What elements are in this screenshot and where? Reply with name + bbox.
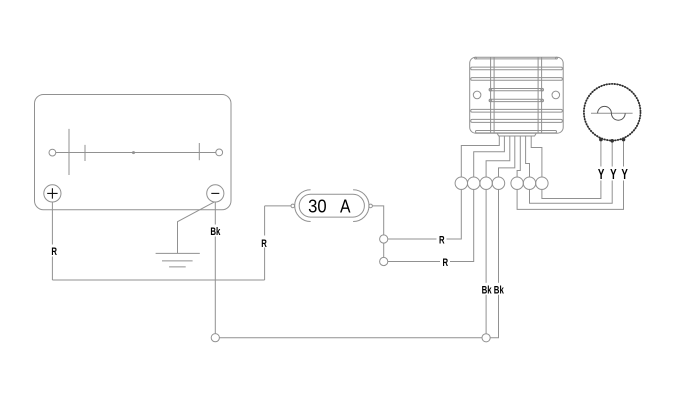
regulator pin wire 7 <box>531 136 542 177</box>
connector bullet pin4 <box>492 177 504 189</box>
connector bullet pin3 <box>480 177 492 189</box>
bottom ground bus wire <box>219 337 482 339</box>
regulator bottom mini fin <box>476 131 557 133</box>
svg-text:R: R <box>443 257 449 269</box>
battery long plate line <box>68 129 70 175</box>
regulator vertical rib left <box>491 57 495 133</box>
ground lead diagonal <box>178 202 215 254</box>
regulator pin wire 2 <box>474 136 505 177</box>
battery cell centerline <box>56 152 216 154</box>
svg-text:Bk: Bk <box>210 226 221 238</box>
svg-text:R: R <box>261 238 267 250</box>
svg-text:30: 30 <box>308 196 327 216</box>
label Y Y Y <box>595 167 629 181</box>
regulator inner fin 2 <box>489 99 543 101</box>
junction bullet left <box>211 334 219 342</box>
battery BAT1 body <box>35 95 232 210</box>
regulator pin wire 4 <box>499 136 515 177</box>
label Bk on minus wire <box>209 225 223 237</box>
connector bullet pin5 <box>511 177 523 189</box>
wire R to regulator pin 1 <box>388 189 462 239</box>
svg-text:R: R <box>439 234 445 246</box>
wire R to regulator pin 2 <box>388 189 474 261</box>
alternator terminal 3 <box>622 138 626 142</box>
regulator U1 body <box>470 57 564 133</box>
regulator fin 3 <box>471 109 563 112</box>
label R on wire 2 <box>440 256 450 268</box>
fuse F1 right outer arc <box>353 190 369 222</box>
alternator G1 stator ring <box>584 84 641 141</box>
regulator pin wire 6 <box>526 136 530 177</box>
wire fuse to connector pair <box>372 206 383 235</box>
regulator vertical rib right <box>538 57 542 133</box>
battery positive terminal <box>44 185 61 202</box>
regulator mount hole right <box>552 91 560 99</box>
alternator sine baseline <box>591 112 633 114</box>
svg-text:Y: Y <box>598 166 605 183</box>
fuse F1 left pigtail <box>291 204 295 208</box>
svg-text:Y: Y <box>621 166 628 183</box>
connector bullet CN1 <box>380 235 388 243</box>
regulator fin 1 <box>471 67 563 70</box>
connector bullet row: pin1 <box>455 177 467 189</box>
label R on wire 1 <box>437 233 447 245</box>
regulator inner fin 1 <box>489 89 543 91</box>
connector bullet pin2 <box>468 177 480 189</box>
fuse F1 right pigtail <box>369 204 373 208</box>
regulator pin wire 3 <box>486 136 510 177</box>
wire fuse riser up <box>264 206 266 280</box>
regulator connector housing <box>497 133 536 136</box>
battery short plate line right <box>198 143 200 160</box>
wire bottom run to fuse riser <box>52 279 264 281</box>
connector bullet CN2 <box>380 257 388 265</box>
label R on fuse riser <box>260 236 270 248</box>
fuse F1 left outer arc <box>295 190 311 222</box>
battery center dot <box>133 152 135 154</box>
wire Bk battery minus down <box>214 202 216 334</box>
svg-text:R: R <box>51 246 57 258</box>
wire Bk from regulator circle 4 down <box>490 189 498 337</box>
wire into fuse left <box>265 205 291 207</box>
svg-text:Bk: Bk <box>482 284 493 296</box>
wire battery plus down <box>51 202 53 280</box>
regulator pin wire 5 <box>517 136 520 177</box>
wire Bk from regulator circle 3 down <box>485 189 487 333</box>
connector bullet pin6 <box>523 177 535 189</box>
regulator pin wire 1 <box>461 136 499 177</box>
battery short plate line left <box>84 145 86 161</box>
alternator sine wave <box>598 106 626 120</box>
svg-text:Bk: Bk <box>494 284 505 296</box>
battery negative terminal <box>207 185 224 202</box>
svg-text:Y: Y <box>610 166 617 183</box>
wire alternator phase 3 <box>517 141 623 209</box>
battery right vent circle <box>216 149 223 156</box>
svg-text:A: A <box>340 196 351 216</box>
alternator terminal 1 <box>599 138 603 142</box>
regulator fin 4 <box>471 119 563 122</box>
wire alternator phase 1 <box>542 141 601 198</box>
wire alternator phase 2 <box>530 142 613 204</box>
junction bullet right <box>482 334 490 342</box>
fuse F1 body <box>299 194 364 217</box>
battery left vent circle <box>49 149 56 156</box>
regulator fin 2 <box>471 78 563 81</box>
regulator top mini fin <box>476 58 557 60</box>
regulator mount hole left <box>473 91 481 99</box>
label Bk Bk <box>479 283 505 295</box>
label R on plus wire <box>49 245 59 257</box>
connector bullet pin7 <box>536 177 548 189</box>
ground symbol <box>156 253 200 267</box>
alternator terminal 2 <box>610 139 614 143</box>
wire between bullets <box>383 243 385 257</box>
